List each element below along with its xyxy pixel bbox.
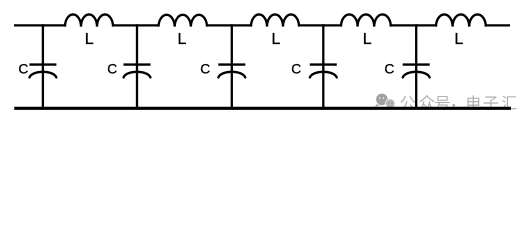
wire shunt branch 5 (node 5 to ground rail): [415, 24, 417, 108]
svg-text:L: L: [178, 31, 187, 48]
wire L1-L2: [112, 24, 160, 26]
wire shunt branch 3 (node 3 to ground rail): [231, 24, 233, 108]
capacitor C4: [310, 65, 337, 78]
capacitor C2: [124, 65, 151, 78]
svg-text:C: C: [384, 62, 394, 77]
wire shunt branch 2 (node 2 to ground rail): [136, 24, 138, 108]
capacitor C5: [403, 65, 430, 78]
wire shunt branch 4 (node 4 to ground rail): [322, 24, 324, 108]
wire L3-L4: [298, 24, 342, 26]
svg-text:L: L: [85, 31, 94, 48]
watermark logo (WeChat chat-bubbles): [375, 94, 395, 109]
wire shunt branch 1 (node 1 to ground rail): [42, 24, 44, 108]
inductor L5: [436, 14, 486, 26]
svg-text:L: L: [363, 31, 372, 48]
svg-text:C: C: [200, 62, 210, 77]
svg-text:C: C: [107, 62, 117, 77]
wire L2-L3: [206, 24, 252, 26]
svg-text:L: L: [272, 31, 281, 48]
ground rail (bottom bus): [14, 107, 511, 110]
wire output lead: [485, 24, 510, 26]
capacitor C3: [218, 65, 245, 78]
inductor L3: [251, 14, 299, 26]
svg-text:C: C: [291, 62, 301, 77]
inductor L1: [65, 14, 113, 26]
svg-text:L: L: [454, 31, 463, 48]
svg-text:C: C: [18, 62, 28, 77]
inductor L4: [341, 14, 391, 26]
wire input lead: [14, 24, 66, 26]
wire L4-L5: [390, 24, 437, 26]
capacitor C1: [29, 65, 56, 78]
inductor L2: [159, 15, 208, 27]
watermark text "公众号·电子汇": [401, 95, 517, 110]
